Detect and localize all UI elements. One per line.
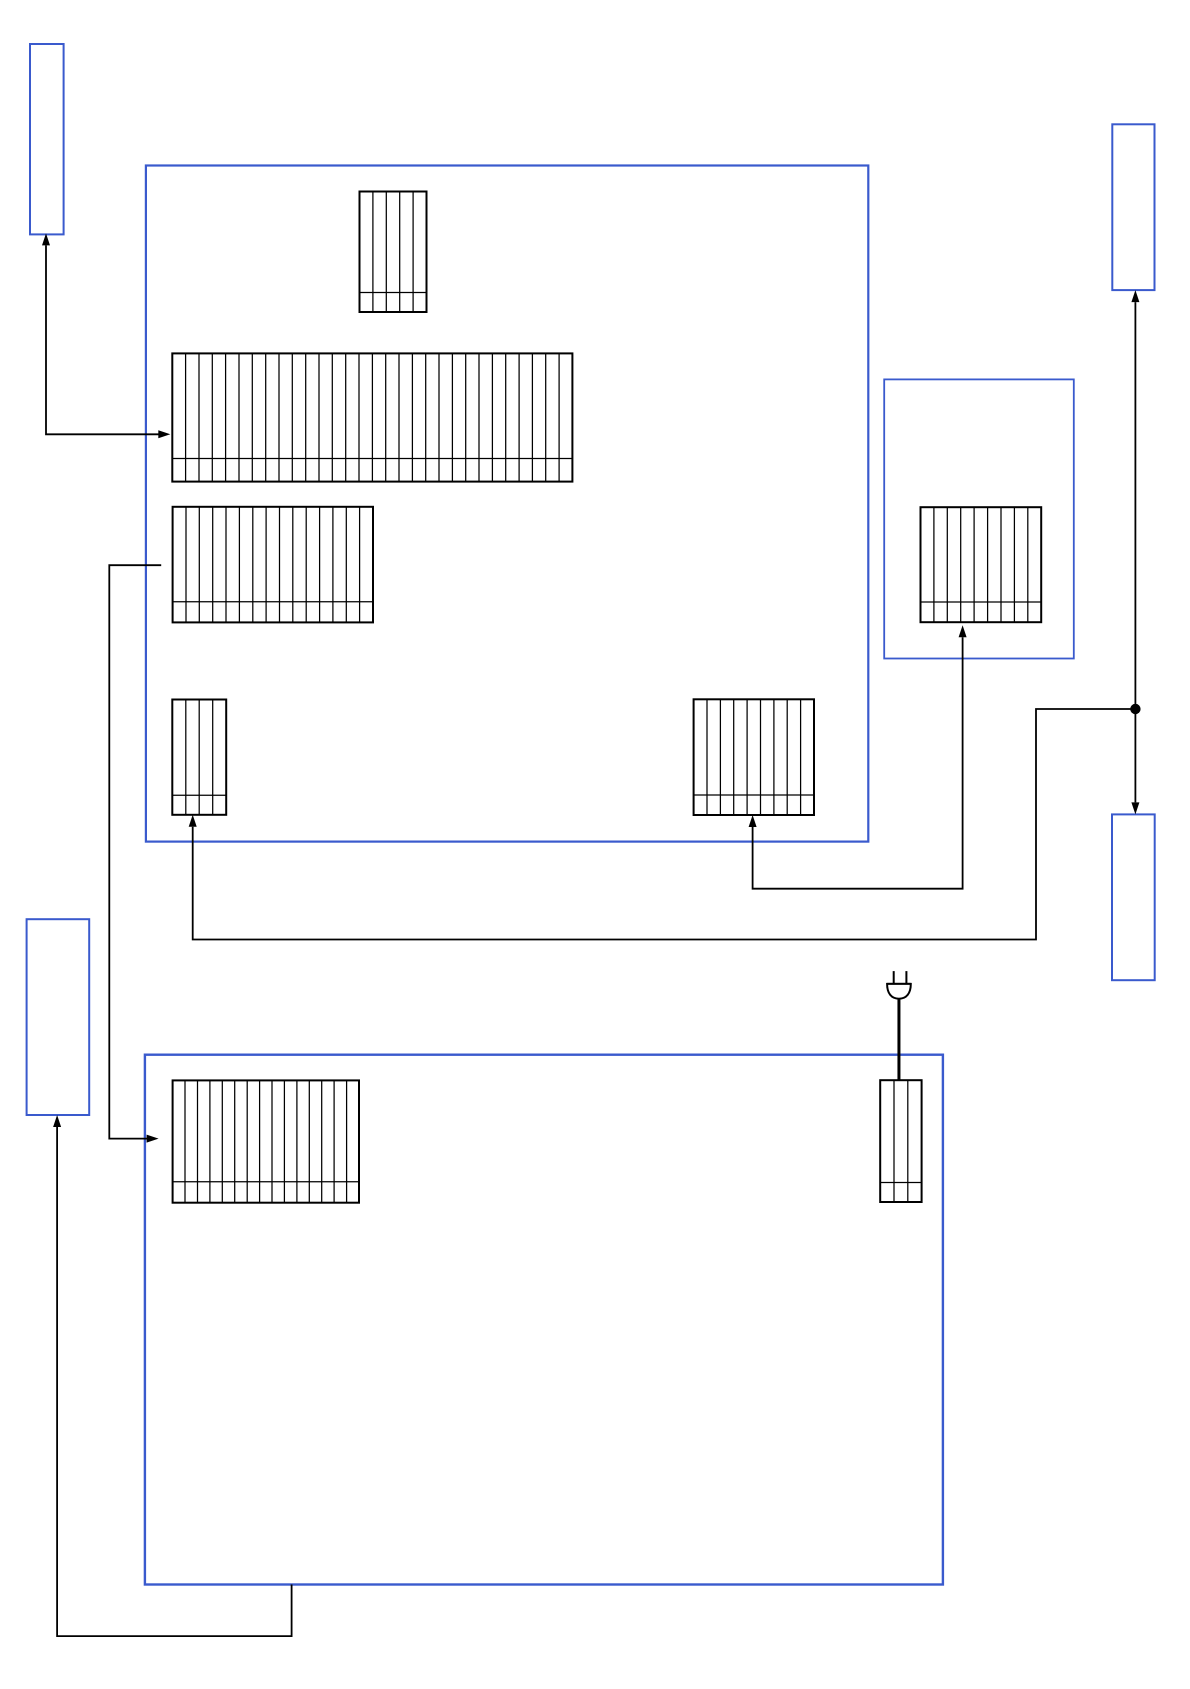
block R4 (mid-right device): [1112, 814, 1155, 980]
wire W3: connector J4 to right bus junction: [189, 709, 1136, 940]
wire W1: R1 to connector J2: [42, 233, 170, 438]
connector J1 (5-pin header): [360, 192, 427, 313]
wire W6: power plug cable to connector J8: [897, 999, 900, 1080]
connector J5 (9-pin header): [694, 699, 814, 815]
wire W7: board B to R2: [53, 1115, 292, 1636]
connector J2 (30-pin header): [172, 353, 572, 481]
block R1 (top-left device): [30, 44, 64, 234]
connector J4 (4-pin header): [172, 700, 226, 815]
connector J8 (3-pin header): [880, 1080, 921, 1202]
board B outline (bottom module): [145, 1055, 943, 1585]
connector J7 (15-pin header): [173, 1080, 359, 1202]
connector J6 (9-pin header): [921, 507, 1042, 622]
junction node on vertical bus: [1130, 704, 1140, 714]
wire W2: connector J3 stub to board B / connector J7: [109, 565, 161, 1142]
power plug P1: [887, 971, 911, 999]
block R3 (top-right device): [1112, 124, 1154, 290]
sub-module outline (right daughter board): [884, 379, 1074, 658]
wire W5: connector J5 to connector J6: [749, 625, 967, 889]
board A outline (top module): [146, 166, 868, 842]
block R2 (mid-left device): [27, 919, 90, 1115]
connector J3 (15-pin header): [173, 507, 373, 623]
wire W4: vertical bus R3 to R4: [1131, 290, 1139, 814]
